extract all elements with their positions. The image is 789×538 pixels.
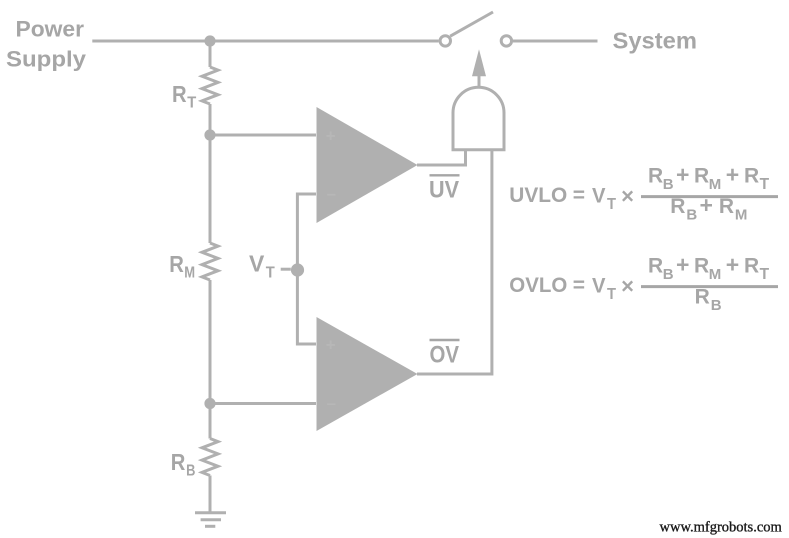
arrow: gate output bbox=[472, 49, 486, 76]
wire: VT bus to comparator inputs bbox=[297, 194, 316, 344]
svg-text:T: T bbox=[187, 94, 196, 111]
svg-text:www.mfgrobots.com: www.mfgrobots.com bbox=[660, 520, 783, 536]
svg-text:Supply: Supply bbox=[6, 46, 87, 71]
svg-text:UV: UV bbox=[429, 177, 459, 204]
svg-text:V: V bbox=[592, 185, 606, 208]
svg-text:×: × bbox=[621, 184, 634, 209]
wire: tap to OV comparator - input bbox=[210, 402, 316, 405]
svg-text:OV: OV bbox=[430, 342, 460, 369]
op-amp U1 (UV comparator) bbox=[317, 107, 418, 223]
wire: tap to UV comparator + input bbox=[210, 134, 316, 137]
node: OV tap junction bbox=[204, 398, 215, 409]
svg-text:R: R bbox=[171, 449, 186, 475]
svg-text:–: – bbox=[327, 184, 336, 203]
wire: OV output to AND gate bbox=[417, 148, 492, 374]
wire: rail to RT bbox=[209, 41, 212, 67]
node: rail junction bbox=[204, 35, 215, 46]
svg-text:–: – bbox=[327, 394, 336, 413]
svg-text:×: × bbox=[621, 274, 634, 299]
label RB bbox=[171, 449, 196, 480]
wire: RM to RB (through tap node) bbox=[209, 280, 212, 439]
wire: VT tick bbox=[281, 268, 291, 271]
label Power Supply bbox=[6, 16, 87, 71]
node: UV tap junction bbox=[204, 129, 215, 140]
svg-text:T: T bbox=[607, 196, 616, 213]
wire: switch to system bbox=[513, 40, 598, 43]
node: VT bbox=[291, 263, 304, 276]
switch: lever bbox=[450, 12, 493, 36]
AND gate bbox=[453, 87, 504, 150]
switch: left contact bbox=[440, 36, 450, 46]
wire: RB to ground bbox=[209, 476, 212, 513]
switch: right contact bbox=[501, 36, 511, 46]
label RT bbox=[172, 81, 197, 111]
svg-text:+: + bbox=[326, 126, 336, 145]
equation OVLO bbox=[509, 252, 778, 315]
svg-text:V: V bbox=[249, 251, 265, 277]
wire: UV output to AND gate bbox=[417, 148, 466, 165]
label UV (active low) bbox=[429, 175, 460, 203]
svg-text:OVLO: OVLO bbox=[509, 274, 567, 297]
svg-text:T: T bbox=[607, 286, 616, 303]
label RM bbox=[169, 251, 195, 282]
ground bbox=[195, 513, 226, 527]
svg-text:B: B bbox=[186, 463, 195, 480]
svg-text:System: System bbox=[613, 27, 698, 53]
svg-text:V: V bbox=[592, 275, 606, 298]
svg-text:R: R bbox=[172, 81, 187, 107]
resistor RM bbox=[202, 243, 218, 280]
svg-text:R: R bbox=[169, 251, 184, 277]
svg-text:=: = bbox=[573, 274, 585, 297]
svg-text:M: M bbox=[184, 264, 195, 281]
resistor RT bbox=[202, 67, 218, 104]
svg-text:+: + bbox=[326, 335, 336, 354]
wire: RT to RM (through tap node) bbox=[209, 104, 212, 243]
svg-text:T: T bbox=[266, 264, 275, 281]
wire: power supply rail bbox=[92, 40, 439, 43]
wire: AND gate output stem bbox=[478, 76, 481, 87]
svg-text:UVLO: UVLO bbox=[509, 184, 567, 207]
svg-text:Power: Power bbox=[16, 16, 85, 41]
svg-text:=: = bbox=[573, 184, 585, 207]
resistor RB bbox=[202, 439, 218, 476]
label OV (active low) bbox=[430, 340, 460, 369]
op-amp U2 (OV comparator) bbox=[317, 317, 418, 431]
label VT bbox=[249, 251, 275, 282]
equation UVLO bbox=[509, 162, 778, 224]
